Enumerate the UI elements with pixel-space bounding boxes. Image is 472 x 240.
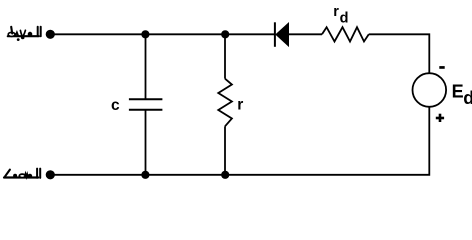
svg-text:c: c (111, 97, 120, 114)
junction bottom of capacitor branch (141, 171, 149, 179)
label Ed (452, 82, 472, 108)
label المصعد (anode terminal name, hand-drawn) (4, 169, 40, 179)
junction top of capacitor branch (141, 30, 149, 38)
diode D1 triangle (276, 23, 289, 46)
resistor r (vertical zigzag) (218, 79, 232, 127)
svg-text:r: r (333, 4, 339, 20)
wire capacitor branch lower (145, 110, 147, 175)
svg-text:d: d (340, 10, 349, 26)
label rd (333, 4, 348, 26)
wire rd to top-right corner then down to source Ed (369, 34, 430, 73)
source Ed circle (413, 73, 447, 107)
wire diode to rd (289, 33, 323, 35)
label المهبط (cathode terminal name, hand-drawn) (8, 27, 41, 41)
wire capacitor branch upper (145, 34, 147, 99)
svg-text:r: r (237, 97, 243, 114)
svg-text:E: E (452, 82, 464, 102)
wire resistor r branch lower (224, 126, 226, 175)
terminal node anode (bottom left) (46, 170, 55, 179)
svg-text:d: d (463, 88, 472, 108)
wire top rail (cathode terminal to diode) (50, 33, 275, 35)
capacitor c plates (129, 99, 163, 109)
wire resistor r branch upper (224, 34, 226, 78)
junction top of resistor branch (221, 30, 229, 38)
wire source Ed down to bottom-right corner then left along bottom rail (50, 107, 429, 175)
terminal node cathode (top left) (46, 30, 55, 39)
label + polarity of Ed (436, 114, 444, 122)
resistor rd (horizontal zigzag) (322, 27, 369, 41)
diode D1 cathode bar (274, 22, 276, 47)
label - polarity of Ed (439, 66, 444, 69)
junction bottom of resistor branch (221, 171, 229, 179)
